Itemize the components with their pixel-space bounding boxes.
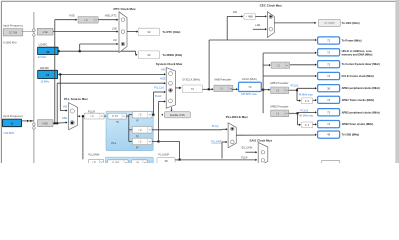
svg-text:/ 2: / 2 — [139, 140, 142, 144]
svg-text:PLLM: PLLM — [88, 109, 95, 113]
svg-text:36: 36 — [327, 86, 331, 90]
svg-text:/R: /R — [136, 147, 139, 150]
svg-text:32: 32 — [147, 53, 151, 57]
svg-text:PLLSAIP: PLLSAIP — [159, 153, 170, 157]
svg-text:/ 4: / 4 — [91, 114, 94, 118]
svg-text:HSE_RTC: HSE_RTC — [105, 13, 117, 17]
svg-text:To USB (MHz): To USB (MHz) — [342, 133, 360, 137]
svg-text:CEC Clock Mux: CEC Clock Mux — [260, 4, 283, 8]
svg-text:72: 72 — [327, 98, 331, 102]
svg-text:PLL48CLK Mux: PLL48CLK Mux — [226, 115, 248, 119]
svg-text:SYSCLK (MHz): SYSCLK (MHz) — [182, 78, 200, 82]
svg-text:/ 2: / 2 — [139, 113, 142, 117]
svg-text:/ 2: / 2 — [276, 88, 279, 92]
svg-text:90 MHz max: 90 MHz max — [299, 115, 314, 118]
svg-text:32.78685: 32.78685 — [324, 22, 335, 25]
svg-text:APB1 peripheral clocks (MHz): APB1 peripheral clocks (MHz) — [342, 86, 380, 90]
svg-text:I2S_CKIN: I2S_CKIN — [241, 147, 252, 150]
svg-text:System Clock Mux: System Clock Mux — [156, 62, 183, 66]
svg-text:72: 72 — [327, 50, 331, 54]
svg-text:SAI1 Clock Mux: SAI1 Clock Mux — [250, 138, 273, 142]
svg-text:/ 8: / 8 — [136, 161, 139, 163]
svg-text:72: 72 — [327, 110, 331, 114]
svg-text:PLLQ: PLLQ — [212, 124, 219, 128]
svg-text:72: 72 — [327, 62, 331, 66]
svg-text:HCLK to AHB bus, core,: HCLK to AHB bus, core, — [342, 49, 373, 53]
svg-text:/ 2: / 2 — [85, 18, 88, 22]
svg-text:72: 72 — [327, 122, 331, 126]
svg-text:PCLK2: PCLK2 — [300, 110, 309, 113]
svg-text:/ 3: / 3 — [139, 128, 142, 132]
svg-text:/ 1: / 1 — [277, 63, 280, 67]
svg-text:Input Frequency: Input Frequency — [3, 24, 23, 28]
svg-text:16: 16 — [46, 73, 50, 77]
svg-text:PLLSAIP: PLLSAIP — [211, 140, 222, 144]
svg-text:To Cortex System timer (MHz): To Cortex System timer (MHz) — [342, 62, 380, 66]
svg-text:APB2 peripheral clocks (MHz): APB2 peripheral clocks (MHz) — [342, 110, 380, 114]
svg-text:HSI RC: HSI RC — [40, 66, 49, 70]
svg-text:32: 32 — [147, 30, 151, 34]
svg-text:48: 48 — [327, 133, 331, 137]
svg-text:PLLR: PLLR — [155, 94, 162, 98]
svg-text:32 KHz: 32 KHz — [38, 55, 47, 59]
svg-text:HSE: HSE — [62, 116, 68, 120]
svg-text:X 2: X 2 — [305, 99, 310, 103]
svg-text:HSI: HSI — [63, 105, 68, 109]
svg-text:PLL: PLL — [111, 141, 116, 145]
svg-text:To RTC (KHz): To RTC (KHz) — [163, 30, 181, 34]
svg-text:APB1 Prescaler: APB1 Prescaler — [270, 81, 288, 85]
svg-text:72: 72 — [327, 74, 331, 78]
svg-text:45 MHz max: 45 MHz max — [299, 94, 314, 97]
svg-text:LSI: LSI — [113, 38, 117, 42]
svg-text:72: 72 — [327, 39, 331, 43]
svg-text:HSI: HSI — [161, 67, 166, 71]
svg-text:To CEC (KHz): To CEC (KHz) — [342, 21, 360, 25]
svg-text:X 72: X 72 — [112, 114, 118, 118]
svg-text:/Q: /Q — [136, 135, 139, 138]
svg-text:PLL Source Mux: PLL Source Mux — [64, 97, 88, 101]
svg-text:HSI: HSI — [233, 10, 238, 14]
svg-text:/ 488: / 488 — [246, 15, 253, 19]
svg-text:32.768: 32.768 — [9, 30, 18, 34]
svg-text:48: 48 — [164, 159, 168, 163]
svg-text:APB1 Timer clocks (MHz): APB1 Timer clocks (MHz) — [342, 98, 374, 102]
svg-text:/P: /P — [136, 120, 139, 123]
svg-text:LSI RC: LSI RC — [39, 43, 48, 47]
svg-text:/ 1: / 1 — [220, 86, 223, 90]
svg-text:PCLK1: PCLK1 — [291, 84, 300, 87]
svg-text:HSE: HSE — [69, 13, 75, 17]
svg-text:/ 4: / 4 — [93, 160, 96, 163]
svg-text:/ 1: / 1 — [276, 111, 279, 115]
svg-text:PLLCLK: PLLCLK — [154, 86, 164, 90]
svg-text:LSE: LSE — [43, 30, 48, 34]
svg-text:X 1: X 1 — [305, 123, 310, 127]
svg-text:APB2 Prescaler: APB2 Prescaler — [270, 105, 288, 109]
svg-text:Enable CSS: Enable CSS — [170, 113, 185, 117]
svg-text:72: 72 — [191, 87, 195, 91]
svg-text:FCLK Cortex clock (MHz): FCLK Cortex clock (MHz) — [342, 74, 374, 78]
svg-text:1-50 MHz: 1-50 MHz — [3, 131, 15, 135]
svg-text:HSE: HSE — [160, 77, 166, 81]
svg-text:APB2 timer clocks (MHz): APB2 timer clocks (MHz) — [342, 122, 374, 126]
svg-text:HSE: HSE — [42, 121, 48, 125]
svg-text:PLLSAIM: PLLSAIM — [88, 153, 99, 157]
svg-text:HCLK (MHz): HCLK (MHz) — [242, 77, 257, 81]
svg-text:Input Frequency: Input Frequency — [3, 114, 23, 118]
svg-text:*N: *N — [116, 121, 119, 124]
svg-text:X 192: X 192 — [112, 161, 120, 163]
svg-text:32: 32 — [46, 50, 50, 54]
svg-text:6-1000 KHz: 6-1000 KHz — [3, 41, 17, 45]
svg-text:LSE: LSE — [255, 23, 260, 27]
svg-text:180 MHz max: 180 MHz max — [241, 92, 257, 96]
svg-text:RTC Clock Mux: RTC Clock Mux — [114, 7, 136, 11]
svg-text:AHB Prescaler: AHB Prescaler — [214, 78, 231, 82]
svg-text:To IWDG (KHz): To IWDG (KHz) — [163, 53, 183, 57]
svg-text:memory and DMA (MHz): memory and DMA (MHz) — [342, 52, 373, 56]
svg-text:LSE: LSE — [112, 26, 117, 30]
svg-text:16 MHz: 16 MHz — [40, 79, 50, 83]
svg-text:PLLR: PLLR — [241, 156, 247, 159]
svg-text:72: 72 — [248, 85, 252, 89]
svg-text:To Power (MHz): To Power (MHz) — [342, 39, 362, 43]
